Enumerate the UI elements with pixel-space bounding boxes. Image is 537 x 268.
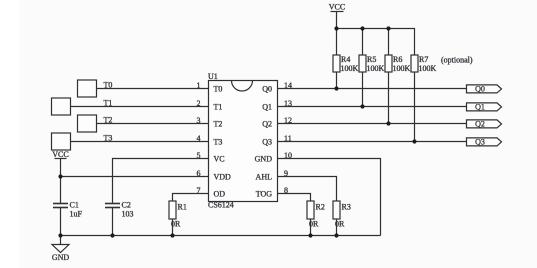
svg-text:T1: T1 bbox=[214, 102, 223, 111]
svg-text:T2: T2 bbox=[104, 115, 113, 124]
svg-text:0R: 0R bbox=[335, 220, 345, 229]
svg-text:Q2: Q2 bbox=[475, 119, 485, 128]
svg-text:4: 4 bbox=[197, 134, 201, 143]
svg-text:Q3: Q3 bbox=[475, 137, 485, 146]
svg-text:R6: R6 bbox=[393, 55, 402, 64]
svg-text:VCC: VCC bbox=[52, 150, 68, 159]
svg-text:OD: OD bbox=[214, 189, 226, 198]
svg-text:14: 14 bbox=[284, 81, 292, 90]
svg-text:T0: T0 bbox=[214, 84, 223, 93]
svg-text:C1: C1 bbox=[70, 200, 79, 209]
svg-text:GND: GND bbox=[255, 154, 273, 163]
svg-text:GND: GND bbox=[52, 253, 70, 262]
svg-text:R7: R7 bbox=[419, 55, 428, 64]
svg-text:5: 5 bbox=[197, 151, 201, 160]
svg-text:R5: R5 bbox=[367, 55, 376, 64]
svg-text:10: 10 bbox=[284, 151, 292, 160]
svg-text:U1: U1 bbox=[208, 72, 218, 81]
svg-text:100K: 100K bbox=[419, 64, 437, 73]
svg-text:7: 7 bbox=[197, 186, 201, 195]
svg-text:C2: C2 bbox=[122, 200, 131, 209]
svg-text:12: 12 bbox=[284, 116, 292, 125]
svg-text:11: 11 bbox=[284, 134, 292, 143]
svg-text:(optional): (optional) bbox=[441, 56, 473, 65]
svg-text:9: 9 bbox=[284, 169, 288, 178]
svg-text:T1: T1 bbox=[104, 98, 113, 107]
svg-text:Q3: Q3 bbox=[262, 137, 272, 146]
svg-text:2: 2 bbox=[197, 99, 201, 108]
svg-text:100K: 100K bbox=[367, 64, 385, 73]
svg-text:1uF: 1uF bbox=[70, 209, 83, 218]
svg-text:T3: T3 bbox=[104, 133, 113, 142]
svg-text:R4: R4 bbox=[341, 55, 350, 64]
svg-text:VCC: VCC bbox=[329, 3, 345, 12]
svg-text:13: 13 bbox=[284, 99, 292, 108]
svg-text:AHL: AHL bbox=[256, 172, 273, 181]
svg-text:103: 103 bbox=[122, 209, 134, 218]
svg-text:T0: T0 bbox=[104, 80, 113, 89]
svg-text:1: 1 bbox=[197, 81, 201, 90]
svg-text:T3: T3 bbox=[214, 137, 223, 146]
svg-text:8: 8 bbox=[284, 186, 288, 195]
svg-text:100K: 100K bbox=[341, 64, 359, 73]
svg-text:CS6124: CS6124 bbox=[208, 201, 234, 210]
svg-text:VC: VC bbox=[214, 154, 225, 163]
svg-text:0R: 0R bbox=[171, 220, 181, 229]
svg-text:R3: R3 bbox=[342, 203, 351, 212]
svg-text:100K: 100K bbox=[393, 64, 411, 73]
svg-text:0R: 0R bbox=[309, 220, 319, 229]
svg-text:Q1: Q1 bbox=[475, 102, 485, 111]
svg-text:Q0: Q0 bbox=[262, 84, 272, 93]
svg-text:TOG: TOG bbox=[256, 189, 273, 198]
svg-text:R2: R2 bbox=[316, 203, 325, 212]
svg-text:Q1: Q1 bbox=[262, 102, 272, 111]
svg-text:T2: T2 bbox=[214, 119, 223, 128]
svg-text:6: 6 bbox=[197, 169, 201, 178]
svg-text:Q2: Q2 bbox=[262, 119, 272, 128]
svg-text:Q0: Q0 bbox=[475, 84, 485, 93]
svg-text:3: 3 bbox=[197, 116, 201, 125]
svg-text:R1: R1 bbox=[178, 203, 187, 212]
svg-text:VDD: VDD bbox=[214, 172, 232, 181]
